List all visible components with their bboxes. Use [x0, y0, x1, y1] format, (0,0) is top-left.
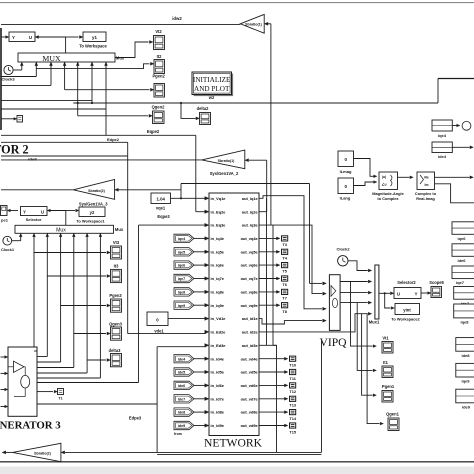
svg-text:Real-Imag: Real-Imag — [416, 196, 435, 201]
svg-text:|u|: |u| — [382, 175, 386, 179]
svg-text:out_vd5e: out_vd5e — [241, 370, 259, 375]
svg-text:To Workspace: To Workspace — [79, 43, 107, 48]
wire vt2 feed from mux right — [115, 42, 149, 58]
generator 3 input arrows — [1, 356, 5, 358]
wire into mid gain from out_iq2e — [249, 159, 267, 161]
tiny display block top-left — [1, 118, 15, 120]
svg-text:To Workspace1: To Workspace1 — [76, 218, 105, 223]
wire Selector2 to Scope5 — [421, 292, 428, 294]
wire Mux1 output to Selector2 — [379, 292, 390, 294]
svg-text:Vt3: Vt3 — [113, 240, 120, 245]
wire Pgen3 feed — [60, 233, 62, 362]
svg-text:out_vq5e: out_vq5e — [241, 249, 259, 254]
svg-text:out_id3e: out_id3e — [242, 343, 259, 348]
svg-text:Vt1: Vt1 — [382, 336, 389, 341]
svg-text:Edpe2: Edpe2 — [107, 137, 120, 142]
svg-text:in_iq6e: in_iq6e — [211, 263, 225, 268]
svg-text:GENERATOR 2: GENERATOR 2 — [0, 142, 29, 156]
svg-text:Sbratio(1): Sbratio(1) — [245, 23, 263, 27]
from tag iqe5 — [174, 248, 194, 256]
svg-text:in_id9e: in_id9e — [211, 423, 225, 428]
svg-text:out_vq6e: out_vq6e — [241, 263, 259, 268]
block INITIALIZE AND PLOT — [192, 72, 232, 95]
block vde1 0 — [147, 312, 168, 326]
svg-text:in_id7e: in_id7e — [211, 396, 225, 401]
wire idw3 — [1, 155, 128, 157]
svg-text:ide6: ide6 — [457, 258, 466, 263]
svg-text:Selector: Selector — [26, 217, 42, 222]
goto tag T10 — [259, 358, 285, 360]
svg-text:Eqpe2: Eqpe2 — [147, 129, 160, 134]
svg-text:T14: T14 — [289, 416, 297, 421]
block ILang 0 — [338, 178, 354, 194]
block ide4 top right — [432, 142, 452, 153]
wire mux2 input 7 — [99, 233, 101, 378]
block vqe1 1.04 — [151, 193, 171, 204]
wire out_id2e to Mux1 — [259, 314, 368, 332]
wire gen1 out 2 — [50, 62, 52, 85]
svg-text:delta3: delta3 — [109, 348, 122, 353]
svg-text:Vt2: Vt2 — [155, 29, 162, 34]
wire Qgen2 feed — [77, 62, 79, 116]
block yint To Workspace2 — [395, 304, 420, 315]
VIPQ outputs to Mux1 — [340, 281, 368, 283]
svg-text:out_vd4e: out_vd4e — [241, 356, 259, 361]
wire vertical bus x273 down — [272, 225, 274, 345]
wire clock2 to Mux1 — [348, 261, 368, 271]
svg-text:∠u: ∠u — [381, 183, 386, 187]
wire Qgen1 feed — [367, 314, 379, 424]
goto block iqe8 right edge — [454, 304, 474, 318]
goto tag T11 — [259, 371, 285, 373]
wire idw2 top — [1, 24, 240, 26]
block iqe4 top right — [432, 120, 452, 131]
wire out_id1e to VIPQ — [259, 319, 322, 324]
wire gen1 out 1 — [1, 76, 36, 78]
svg-text:iqe8: iqe8 — [460, 320, 469, 325]
from tag ide7 — [174, 395, 194, 403]
svg-text:iqe5: iqe5 — [178, 250, 185, 254]
wire Complex out 1 — [435, 176, 470, 178]
svg-text:out_iq2e: out_iq2e — [242, 209, 259, 214]
block NETWORK — [209, 193, 259, 436]
svg-text:Pgen1: Pgen1 — [382, 384, 395, 389]
clock Clock1 — [3, 236, 12, 245]
svg-text:To Workspace2: To Workspace2 — [391, 316, 420, 321]
svg-text:It2: It2 — [157, 54, 163, 59]
svg-text:out_vd8e: out_vd8e — [241, 410, 259, 415]
svg-text:ide8: ide8 — [461, 353, 470, 358]
goto tag T3 — [259, 237, 277, 239]
from tag ide8 — [174, 408, 194, 416]
svg-text:vde1: vde1 — [154, 328, 164, 333]
svg-text:It1: It1 — [383, 360, 389, 365]
gain Sbratio(1) top — [240, 14, 264, 33]
svg-text:T7: T7 — [282, 296, 287, 301]
svg-text:in_id4e: in_id4e — [211, 356, 225, 361]
wire out_id3e down to bottom bus — [259, 345, 277, 452]
scope delta2 — [200, 113, 211, 125]
svg-text:in_Ed2e: in_Ed2e — [211, 330, 227, 335]
wire bus y183.5 to VIPQ input1 — [181, 183, 310, 185]
wire delta2 feed — [181, 103, 196, 118]
wire mux2 output to selector and y2 — [50, 210, 66, 212]
from tag iqe7 — [174, 274, 194, 282]
svg-text:NETWORK: NETWORK — [204, 436, 263, 449]
wire Sbratio(2) output left — [6, 451, 13, 453]
svg-text:iqe7: iqe7 — [178, 277, 185, 281]
network input port arrows — [205, 196, 209, 200]
svg-text:in_iq8e: in_iq8e — [211, 290, 225, 295]
svg-text:pe1: pe1 — [1, 218, 9, 223]
wire clock to mux — [13, 69, 22, 71]
tiny display block T1 — [58, 389, 64, 395]
svg-text:ide9: ide9 — [462, 404, 471, 409]
wire to yint — [385, 293, 391, 308]
wire vqe1 to network — [171, 197, 206, 199]
svg-text:Qgen1: Qgen1 — [386, 412, 399, 417]
wire mux output to selector and y1 — [38, 36, 66, 38]
wire vertical right bus to bottom — [321, 341, 323, 452]
from tag iqe8 — [174, 288, 194, 296]
svg-text:to Complex: to Complex — [377, 196, 399, 201]
svg-text:iqe9: iqe9 — [178, 304, 185, 308]
wire into Sbratio(2) bottom — [65, 451, 322, 453]
gain Sbratio(2) bottom — [13, 443, 61, 461]
svg-text:Im: Im — [425, 183, 429, 187]
from tag iqe9 — [174, 301, 194, 309]
wire w2 step to right edge — [437, 79, 439, 104]
wire gen1 out 4 — [1, 108, 106, 110]
goto tag T13 — [259, 398, 285, 400]
svg-text:T15: T15 — [289, 429, 297, 434]
wire out_iq2e to mid gain — [259, 211, 267, 213]
svg-text:Clock3: Clock3 — [1, 77, 15, 82]
wire gen1 out 3 — [1, 100, 92, 102]
wire Sbratio(2) gen2 output left — [1, 189, 73, 191]
svg-text:Pgen3: Pgen3 — [109, 293, 122, 298]
goto block ide8 right edge — [456, 338, 474, 352]
svg-text:U: U — [29, 35, 32, 40]
wire vertical into Eqpe2 line — [105, 62, 107, 135]
block y2 To Workspace1 — [79, 207, 105, 217]
mux bar top — [18, 53, 115, 62]
svg-text:in_Ed3e: in_Ed3e — [211, 343, 227, 348]
svg-text:out_id2e: out_id2e — [242, 330, 259, 335]
svg-text:y1: y1 — [92, 35, 97, 40]
wire into Sbratio(1) — [266, 23, 271, 25]
svg-text:T11: T11 — [289, 376, 296, 381]
goto block iqe9 right edge — [456, 363, 474, 377]
svg-text:iqe8: iqe8 — [178, 291, 185, 295]
svg-text:ide9: ide9 — [178, 424, 185, 428]
svg-text:in_id8e: in_id8e — [211, 410, 225, 415]
goto oval — [462, 121, 471, 130]
svg-text:out_vq9e: out_vq9e — [241, 303, 259, 308]
wire It2 feed — [35, 62, 37, 77]
goto tag T12 — [259, 384, 285, 386]
svg-text:ide8: ide8 — [178, 411, 185, 415]
wire Complex out 2 loop — [435, 184, 474, 203]
svg-text:1.04: 1.04 — [157, 196, 166, 201]
wire Edpe3 — [37, 403, 157, 405]
svg-text:Y: Y — [415, 291, 418, 296]
from tag iqe4 — [174, 234, 194, 242]
block ILmag 0 — [338, 151, 354, 167]
svg-text:iqe4: iqe4 — [178, 237, 186, 241]
wire out_iq3e to top gain and VIPQ in2 — [259, 225, 322, 294]
svg-text:ide4: ide4 — [438, 154, 447, 159]
wire Pgen2 feed — [64, 62, 66, 90]
svg-text:Edpe3: Edpe3 — [129, 416, 142, 421]
svg-text:iqe6: iqe6 — [178, 264, 185, 268]
svg-text:ILang: ILang — [340, 195, 351, 200]
svg-text:out_iq1e: out_iq1e — [242, 196, 259, 201]
svg-text:out_vq8e: out_vq8e — [241, 290, 259, 295]
wire into selector left — [1, 36, 7, 38]
svg-text:Mux: Mux — [56, 228, 66, 234]
top border line — [0, 2, 474, 4]
clock Clock3 — [4, 65, 13, 74]
svg-text:y2: y2 — [90, 210, 95, 215]
scope pe1 left — [1, 206, 8, 216]
svg-text:in_id5e: in_id5e — [211, 370, 225, 375]
svg-text:ILmag: ILmag — [340, 169, 352, 174]
block y1 To Workspace — [83, 32, 106, 42]
svg-text:Selector2: Selector2 — [397, 280, 416, 285]
goto tag T8 — [259, 304, 277, 306]
svg-text:Sbratio(2): Sbratio(2) — [88, 189, 106, 193]
generator 3 staircase wires to mux2 — [34, 350, 37, 352]
svg-text:Qgen2: Qgen2 — [152, 104, 165, 109]
wire mid gain output left — [1, 159, 202, 161]
wire ide4 to right edge — [452, 146, 469, 148]
wire w2 long — [91, 62, 93, 103]
svg-text:ide7: ide7 — [178, 397, 185, 401]
svg-text:iqe9: iqe9 — [461, 379, 470, 384]
selector block gen2 — [21, 207, 48, 216]
svg-text:Eqpe3: Eqpe3 — [157, 214, 170, 219]
svg-text:Sys/Gen1VA_3: Sys/Gen1VA_3 — [79, 201, 108, 206]
goto block ide9 right edge — [456, 389, 474, 403]
svg-text:GENERATOR 3: GENERATOR 3 — [0, 419, 61, 431]
goto tag T6 — [259, 278, 277, 280]
svg-text:T10: T10 — [289, 363, 296, 368]
svg-text:in_Vq1e: in_Vq1e — [211, 196, 227, 201]
svg-text:AND PLOT: AND PLOT — [194, 85, 230, 93]
svg-text:yint: yint — [403, 307, 411, 312]
svg-text:in_iq4e: in_iq4e — [211, 236, 225, 241]
wire Qgen3 feed — [73, 233, 75, 367]
svg-text:VIPQ: VIPQ — [319, 336, 347, 349]
wire It3 feed — [46, 233, 48, 356]
bottom frame line — [0, 461, 474, 463]
svg-text:idw2: idw2 — [172, 16, 182, 21]
generator 3 block — [8, 347, 37, 416]
block Magnitude-Angle to Complex — [379, 172, 398, 190]
wire Vt3 feed — [33, 233, 35, 351]
svg-text:iqe4: iqe4 — [438, 133, 447, 138]
svg-text:ide4: ide4 — [178, 357, 186, 361]
mux top input arrows — [35, 62, 38, 66]
wire into Sbratio(2) gen2 — [119, 189, 182, 191]
svg-text:out_vd7e: out_vd7e — [241, 396, 259, 401]
svg-text:out_vq4e: out_vq4e — [241, 236, 259, 241]
from tag ide4 — [174, 355, 194, 363]
wire delta3 feed — [86, 233, 88, 373]
block INITIALIZE AND PLOT shadow — [194, 74, 234, 97]
wire vde1 to network — [168, 318, 206, 320]
block VIPQ — [329, 275, 340, 331]
bottom gray strip — [0, 467, 474, 474]
goto tag T7 — [259, 291, 277, 293]
svg-text:Clock2: Clock2 — [336, 247, 350, 252]
svg-text:Sbratio(2): Sbratio(2) — [34, 452, 52, 456]
gain Sbratio(1) mid Sys/Gen1VA_2 — [202, 150, 245, 169]
box bottom line — [157, 453, 321, 455]
wire clock1 to mux2 — [12, 240, 21, 242]
wire vertical bus x266.5 down — [266, 198, 268, 345]
from tag ide9 — [174, 421, 194, 429]
svg-text:iqe7: iqe7 — [456, 280, 465, 285]
wire It1 feed — [357, 303, 372, 371]
wire iqe4 to goto oval — [452, 125, 456, 127]
svg-text:U: U — [397, 291, 400, 296]
svg-text:out_id1e: out_id1e — [242, 316, 259, 321]
svg-text:in_Eq2e: in_Eq2e — [211, 209, 227, 214]
from tag iqe6 — [174, 261, 194, 269]
svg-text:Y: Y — [23, 209, 26, 214]
svg-text:Scope5: Scope5 — [429, 280, 444, 285]
svg-text:Sys/Gen1VA_2: Sys/Gen1VA_2 — [210, 171, 239, 176]
block Complex to Real-Imag — [417, 172, 435, 190]
svg-text:Clock1: Clock1 — [1, 247, 15, 252]
wire Pgen1 feed — [362, 314, 373, 396]
svg-text:iqe6: iqe6 — [457, 236, 466, 241]
svg-text:out_vq7e: out_vq7e — [241, 276, 259, 281]
goto tag T4 — [259, 251, 277, 253]
wire gen3 to tiny display T1 — [37, 391, 53, 393]
svg-text:ide6: ide6 — [178, 384, 185, 388]
svg-text:T1: T1 — [58, 396, 62, 400]
svg-text:Mux: Mux — [115, 227, 124, 232]
svg-text:U: U — [41, 209, 44, 214]
svg-text:ide5: ide5 — [178, 371, 185, 375]
svg-text:in_Eq3e: in_Eq3e — [211, 223, 227, 228]
svg-text:in_Vd1e: in_Vd1e — [211, 316, 227, 321]
wire Eqpe3 — [37, 382, 139, 384]
svg-text:out_vd6e: out_vd6e — [241, 383, 259, 388]
svg-text:out_iq3e: out_iq3e — [242, 223, 259, 228]
svg-text:T12: T12 — [289, 389, 297, 394]
svg-text:It3: It3 — [114, 264, 120, 269]
svg-text:in_id6e: in_id6e — [211, 383, 225, 388]
mux2 input arrows — [33, 233, 36, 236]
svg-text:Sbratio(1): Sbratio(1) — [218, 159, 236, 163]
block Mux1 — [375, 265, 379, 319]
goto block iqe6 right edge — [452, 222, 474, 235]
selector block top — [9, 32, 35, 42]
wire ILmag to MagAngle — [354, 159, 374, 177]
svg-text:vqe1: vqe1 — [156, 206, 166, 211]
goto block iqe7 right edge — [452, 266, 474, 279]
wire Edpe2 — [1, 141, 128, 143]
gain Sbratio(2) gen2 — [73, 180, 114, 200]
svg-text:in_iq5e: in_iq5e — [211, 249, 225, 254]
svg-text:out_vd9e: out_vd9e — [241, 423, 259, 428]
svg-text:Mux1: Mux1 — [369, 319, 380, 324]
goto tag T14 — [259, 411, 285, 413]
wire selector to scope pe1 — [10, 210, 18, 212]
svg-text:Y: Y — [12, 35, 15, 40]
goto block ide7 right edge — [454, 287, 474, 300]
wire Eqpe2 — [1, 134, 196, 136]
generator 1 block edge (cropped at left) — [0, 28, 2, 130]
wire vertical from out_iq3e to Sbratio(1) — [270, 24, 272, 225]
svg-text:delta2: delta2 — [197, 106, 210, 111]
from tag ide5 — [174, 368, 194, 376]
goto block ide6 right edge — [452, 244, 474, 256]
svg-text:in_iq7e: in_iq7e — [211, 276, 225, 281]
svg-text:from: from — [174, 432, 182, 436]
svg-text:in_iq9e: in_iq9e — [211, 303, 225, 308]
svg-text:Re: Re — [424, 176, 428, 180]
svg-text:T13: T13 — [289, 403, 297, 408]
svg-text:INITIALIZE: INITIALIZE — [193, 76, 231, 84]
goto tag T15 — [259, 425, 285, 427]
wire ILang to MagAngle — [354, 182, 374, 186]
svg-text:Pgen2: Pgen2 — [152, 74, 165, 79]
from tag ide6 — [174, 381, 194, 389]
wire MagAngle to Complex — [398, 176, 410, 178]
mux bar gen2 — [15, 225, 114, 233]
svg-text:MUX: MUX — [42, 54, 61, 63]
wire Vt1 feed — [351, 282, 373, 347]
wire out_iq1e to bus — [259, 196, 322, 309]
svg-text:Qgen3: Qgen3 — [109, 321, 122, 326]
goto tag T5 — [259, 264, 277, 266]
